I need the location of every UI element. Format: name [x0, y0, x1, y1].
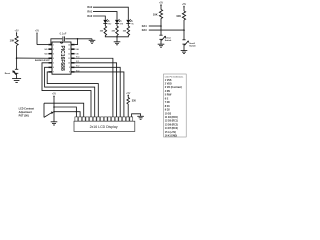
potentiometer RV1 top wire to LCD pin3 — [44, 103, 84, 117]
wire Vdd to LCD pin1 — [54, 107, 76, 117]
node MCLR junction — [16, 57, 18, 59]
wire pin8 to LCD pin14 — [75, 72, 124, 117]
svg-text:5: 5 — [53, 63, 54, 65]
svg-text:0.1uF: 0.1uF — [60, 31, 67, 35]
svg-text:RA1: RA1 — [75, 53, 79, 56]
svg-text:1 VSS: 1 VSS — [165, 80, 172, 82]
svg-text:4: 4 — [53, 58, 54, 60]
svg-text:2: 2 — [53, 49, 54, 51]
svg-text:10K: 10K — [153, 12, 158, 16]
label pot — [19, 108, 35, 118]
pin stubs left 1-7 — [48, 45, 52, 72]
node cap junction — [77, 38, 79, 40]
svg-text:13: 13 — [68, 49, 70, 51]
IC U1 PIC16F688 — [52, 42, 71, 74]
wire LCD pin16 to ground — [132, 114, 141, 117]
node LED gnd junction — [116, 36, 118, 38]
svg-text:RA3: RA3 — [142, 29, 147, 32]
pin stubs right 14-8 — [71, 45, 75, 72]
svg-text:10 D3: 10 D3 — [165, 113, 172, 115]
svg-text:3 VO (Contrast): 3 VO (Contrast) — [165, 86, 182, 89]
LED D1 — [103, 19, 112, 26]
svg-text:+5V: +5V — [52, 94, 57, 96]
resistor R2 330 — [100, 26, 107, 36]
svg-text:6: 6 — [53, 67, 54, 69]
svg-text:1: 1 — [53, 44, 54, 46]
wire pin10 to LCD pin12 — [75, 63, 117, 117]
wire — [116, 37, 118, 42]
svg-text:9 D2: 9 D2 — [165, 110, 171, 112]
resistor R6 10K — [176, 11, 185, 20]
wire — [65, 38, 92, 40]
svg-text:+5V: +5V — [182, 3, 187, 6]
svg-text:RA0: RA0 — [87, 15, 92, 18]
wire pin6 wrap to LCD pin5 — [45, 67, 95, 117]
svg-text:RA4: RA4 — [142, 25, 147, 28]
power +5V (scroll pullup) — [182, 3, 187, 11]
svg-text:RA0: RA0 — [75, 48, 79, 51]
svg-text:2x16 LCD Display: 2x16 LCD Display — [90, 125, 118, 129]
svg-text:D3: D3 — [131, 21, 133, 23]
svg-text:Reset: Reset — [5, 72, 11, 75]
svg-text:RED: RED — [108, 24, 112, 26]
wire Vss pin14 — [75, 39, 78, 45]
wire — [16, 58, 18, 69]
ground — [158, 44, 165, 47]
node crossing dot — [76, 111, 77, 112]
svg-text:330: 330 — [123, 31, 127, 33]
power +5V (MCLR pullup) — [15, 30, 20, 36]
svg-text:6 E: 6 E — [165, 98, 169, 100]
svg-text:15 A (+5V): 15 A (+5V) — [165, 131, 176, 134]
resistor R3 330 — [111, 26, 118, 36]
node wiper junction — [53, 111, 55, 113]
svg-text:Switch: Switch — [165, 39, 172, 42]
svg-text:13 D6 (RC2): 13 D6 (RC2) — [165, 124, 178, 126]
svg-text:330: 330 — [132, 100, 137, 103]
pin numbers right — [68, 44, 70, 73]
switch SW2 select — [159, 35, 172, 42]
svg-text:RA4: RA4 — [44, 53, 48, 56]
ground — [12, 79, 21, 83]
resistor R5 10K — [153, 10, 163, 19]
svg-text:16 K (GND): 16 K (GND) — [165, 136, 178, 138]
svg-text:7 D0: 7 D0 — [165, 102, 171, 104]
svg-text:12: 12 — [68, 54, 70, 56]
svg-text:11: 11 — [68, 58, 70, 60]
wire — [183, 44, 185, 51]
switch SW3 scroll — [182, 40, 196, 48]
svg-text:330: 330 — [111, 31, 115, 33]
svg-text:+5V: +5V — [126, 93, 131, 95]
svg-text:PIC16F688: PIC16F688 — [59, 45, 65, 71]
svg-text:330: 330 — [100, 31, 104, 33]
wire pin5 wrap to LCD pin4 — [42, 63, 91, 117]
wire — [16, 73, 18, 78]
power +5V (backlight) — [126, 93, 131, 98]
resistor R4 330 — [123, 26, 130, 36]
ground — [89, 39, 96, 44]
svg-text:+5V: +5V — [159, 1, 164, 4]
LCD header pins 1-16 — [75, 117, 133, 121]
wire Vdd to pin1 — [37, 44, 48, 46]
wire riser to cap — [51, 39, 62, 45]
svg-text:D1: D1 — [108, 21, 110, 23]
note box LCD pin definitions — [164, 74, 187, 138]
svg-text:GRN: GRN — [119, 24, 124, 26]
wire pin11 to LCD pin11 — [75, 58, 113, 117]
svg-text:+5V: +5V — [35, 31, 40, 33]
svg-text:3: 3 — [53, 54, 54, 56]
wire — [93, 7, 128, 20]
svg-text:9: 9 — [69, 67, 70, 69]
wire — [93, 16, 105, 20]
svg-text:2 VDD: 2 VDD — [165, 84, 172, 86]
capacitor C1 0.1uF — [60, 31, 67, 41]
svg-text:10K: 10K — [176, 14, 181, 18]
wire — [149, 25, 161, 27]
pin numbers left — [53, 44, 54, 73]
wire wiper to LCD pin2 — [54, 112, 80, 117]
wire — [160, 19, 162, 36]
node pin1 junction — [50, 44, 52, 46]
svg-text:10: 10 — [68, 63, 70, 65]
svg-text:14 D7 (RC3): 14 D7 (RC3) — [165, 127, 178, 130]
svg-text:Scroll: Scroll — [189, 43, 195, 45]
node RA4 junction — [160, 25, 162, 27]
node Vdd junction — [53, 106, 55, 108]
wire — [160, 39, 162, 44]
wire — [183, 20, 185, 40]
ground — [137, 116, 144, 119]
svg-text:LCD Pin Definitions: LCD Pin Definitions — [165, 76, 184, 79]
wire — [93, 12, 117, 20]
svg-text:4 RS: 4 RS — [165, 90, 171, 93]
resistor R7 330 — [127, 98, 137, 105]
ground — [51, 122, 58, 125]
svg-text:10K: 10K — [10, 38, 15, 42]
svg-text:D2: D2 — [119, 21, 121, 23]
wire — [17, 57, 49, 59]
wire — [149, 29, 184, 31]
wire LED common — [105, 36, 128, 37]
svg-text:RA5: RA5 — [44, 48, 48, 51]
svg-text:8 D1: 8 D1 — [165, 106, 171, 108]
power +5V (select pullup) — [159, 1, 164, 9]
svg-text:RA2: RA2 — [87, 6, 92, 9]
wire pin7 wrap to LCD pin6 — [47, 72, 98, 117]
svg-text:Select: Select — [165, 36, 171, 39]
svg-text:POT (5K): POT (5K) — [19, 114, 29, 117]
wire pin9 to LCD pin13 — [75, 67, 121, 117]
ground — [114, 42, 121, 45]
svg-text:14: 14 — [68, 44, 70, 46]
svg-text:YEL: YEL — [131, 24, 134, 26]
wire to LCD pin15 — [127, 104, 129, 117]
svg-text:Switch: Switch — [189, 45, 196, 48]
LED D3 — [126, 19, 134, 26]
svg-text:+5V: +5V — [15, 30, 20, 32]
power +5V (Vdd) — [35, 31, 40, 45]
switch SW1 reset — [5, 69, 19, 75]
power +5V (pot / LCD Vdd) — [52, 94, 57, 122]
svg-text:RA1: RA1 — [87, 11, 92, 14]
svg-text:7: 7 — [53, 72, 54, 74]
LCD module — [74, 121, 135, 131]
svg-text:12 D5 (RC1): 12 D5 (RC1) — [165, 121, 178, 123]
node RA3 junction — [183, 29, 185, 31]
LED D2 — [115, 19, 124, 26]
svg-text:RA3/MCLR/VPP: RA3/MCLR/VPP — [35, 59, 51, 62]
resistor R1 10K — [10, 36, 19, 46]
ground — [181, 51, 188, 54]
potentiometer RV1 wiper — [44, 103, 54, 117]
svg-text:11 D4 (RC0): 11 D4 (RC0) — [165, 116, 178, 119]
wire — [16, 46, 18, 59]
svg-text:8: 8 — [69, 72, 70, 74]
svg-text:5 R/W: 5 R/W — [165, 95, 172, 97]
